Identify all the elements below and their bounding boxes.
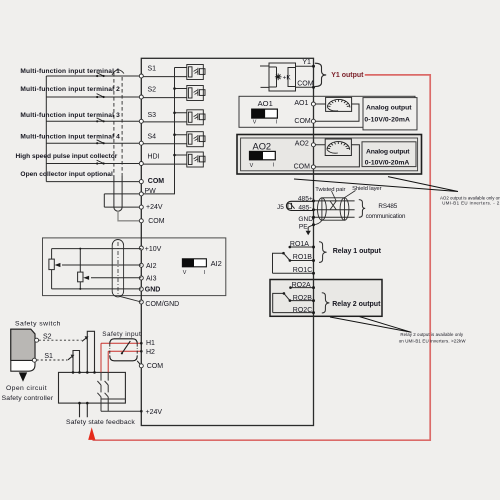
svg-text:S3: S3 [148, 112, 157, 119]
svg-text:+10V: +10V [145, 246, 162, 253]
svg-text:Multi-function input terminal: Multi-function input terminal 4 [20, 134, 120, 141]
svg-text:Y1 output: Y1 output [331, 72, 364, 79]
svg-text:AI2: AI2 [211, 259, 222, 268]
svg-text:COM: COM [148, 178, 165, 185]
svg-text:485-: 485- [298, 204, 311, 211]
svg-text:H2: H2 [146, 349, 155, 356]
svg-text:Twisted pair: Twisted pair [315, 187, 345, 193]
svg-text:S4: S4 [148, 134, 157, 141]
svg-text:Safety input: Safety input [102, 331, 141, 338]
svg-text:V: V [183, 270, 187, 276]
svg-text:AI2: AI2 [146, 263, 157, 270]
svg-text:+24V: +24V [146, 409, 163, 416]
svg-text:COM: COM [297, 81, 314, 88]
svg-text:Safety switch: Safety switch [15, 320, 61, 327]
svg-text:I: I [273, 163, 275, 169]
svg-text:Safety state feedback: Safety state feedback [66, 419, 135, 426]
svg-text:AO1: AO1 [294, 100, 308, 107]
svg-text:RO2A: RO2A [292, 282, 311, 289]
svg-text:Relay 1 output: Relay 1 output [333, 248, 382, 255]
svg-text:Multi-function input terminal: Multi-function input terminal 2 [20, 86, 120, 93]
svg-text:RS485: RS485 [378, 203, 397, 210]
svg-text:S1: S1 [44, 353, 53, 360]
svg-text:COM: COM [294, 164, 311, 171]
svg-text:+K: +K [283, 74, 292, 81]
svg-text:GND: GND [145, 287, 161, 294]
svg-text:COM/GND: COM/GND [145, 301, 179, 308]
svg-text:communication: communication [366, 213, 406, 220]
svg-text:PW: PW [145, 188, 157, 195]
svg-text:Multi-function input terminal: Multi-function input terminal 1 [20, 68, 120, 75]
svg-text:Relay 2 output: Relay 2 output [332, 301, 381, 308]
svg-text:I: I [276, 120, 278, 126]
svg-text:RO1B: RO1B [293, 254, 312, 261]
svg-text:Open circuit: Open circuit [6, 385, 47, 392]
svg-text:COM: COM [294, 118, 311, 125]
svg-text:Analog output: Analog output [366, 148, 410, 155]
svg-text:AI3: AI3 [146, 276, 157, 283]
svg-text:Y1: Y1 [302, 59, 311, 66]
svg-text:Multi-function input terminal: Multi-function input terminal 3 [20, 112, 120, 119]
svg-text:High speed pulse input collect: High speed pulse input collector [16, 153, 118, 160]
svg-text:HDI: HDI [148, 154, 160, 161]
svg-text:AO1: AO1 [258, 99, 273, 108]
svg-text:Shield layer: Shield layer [352, 186, 381, 192]
svg-text:J5: J5 [277, 204, 284, 211]
svg-text:RO2B: RO2B [293, 295, 312, 302]
svg-text:V: V [253, 120, 257, 126]
svg-text:Relay 2 output is available on: Relay 2 output is available only [400, 332, 464, 337]
svg-text:on UMI-B1 EU inverters. >22kW: on UMI-B1 EU inverters. >22kW [399, 338, 467, 343]
svg-text:H1: H1 [146, 340, 155, 347]
svg-text:S1: S1 [148, 65, 157, 72]
svg-text:0-10V/0-20mA: 0-10V/0-20mA [364, 117, 410, 124]
svg-text:RO1C: RO1C [293, 267, 312, 274]
svg-text:PE: PE [299, 223, 308, 230]
svg-text:V: V [250, 163, 254, 169]
svg-text:GND: GND [298, 216, 313, 223]
svg-text:AO2: AO2 [253, 141, 272, 151]
svg-text:+24V: +24V [146, 204, 163, 211]
svg-text:AO2: AO2 [295, 141, 309, 148]
svg-text:Open collector input optional: Open collector input optional [20, 171, 113, 178]
svg-text:RO1A: RO1A [290, 241, 309, 248]
svg-text:RO2C: RO2C [293, 307, 312, 314]
svg-text:S2: S2 [43, 334, 52, 341]
svg-text:I: I [204, 270, 206, 276]
svg-text:COM: COM [148, 218, 165, 225]
svg-text:Safety controller: Safety controller [2, 395, 54, 402]
svg-text:Analog output: Analog output [366, 105, 412, 112]
svg-text:S2: S2 [148, 86, 157, 93]
svg-text:COM: COM [147, 363, 164, 370]
svg-text:0-10V/0-20mA: 0-10V/0-20mA [365, 160, 410, 167]
svg-text:UMI-B1 EU inverters. - 220V.: UMI-B1 EU inverters. - 220V. [442, 201, 500, 206]
svg-text:485+: 485+ [298, 195, 313, 202]
